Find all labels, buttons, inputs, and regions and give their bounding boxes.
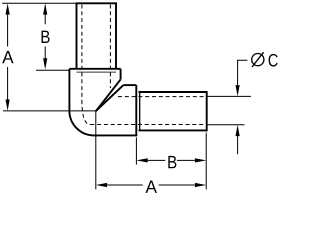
dimension B bottom line (148, 159, 195, 161)
dimension A left line (7, 15, 9, 100)
hidden bore line vertical right (109, 5, 111, 89)
leader arrow up (236, 125, 240, 136)
vertical tube top face edge (76, 2, 118, 4)
dimension A bottom arrow left (96, 183, 107, 187)
chamfer line upper (96, 79, 121, 111)
leader arrow down (236, 85, 240, 96)
extension line hub right (B bottom) (135, 137, 137, 164)
label B top (42, 31, 50, 43)
elbow body outer fillet arc (69, 111, 94, 136)
extension line bore top right (207, 95, 251, 97)
elbow body bottom edge (94, 134, 137, 136)
label C (269, 54, 278, 67)
leader stem below (237, 136, 239, 154)
dimension B bottom arrow left (136, 158, 147, 162)
dimension A bottom arrow right (195, 183, 206, 187)
horizontal tube end face (206, 91, 208, 131)
extension line vertical centerline (A bottom) (95, 111, 97, 189)
dimension B top arrow up (43, 3, 47, 14)
elbow hub right face edge (135, 85, 137, 135)
hidden bore line horizontal bottom (90, 124, 205, 126)
elbow hub top step edge (69, 68, 120, 70)
hidden bore fillet arc (82, 100, 90, 124)
extension line bore bottom right (207, 124, 245, 126)
leader line diameter C (238, 60, 248, 85)
chamfer line lower (96, 85, 124, 111)
dimension B top line (44, 15, 46, 59)
label B bottom (168, 156, 176, 168)
label A bottom (146, 181, 157, 193)
extension line top (2, 2, 77, 4)
elbow hub top edge (123, 84, 136, 86)
horizontal tube socket seam (139, 92, 141, 130)
dimension A left arrow up (6, 3, 10, 14)
vertical tube right edge (115, 3, 117, 69)
horizontal tube bottom edge (139, 129, 207, 131)
hidden bore line vertical left (81, 5, 83, 101)
diameter symbol (252, 54, 264, 66)
hidden bore line horizontal top (118, 96, 206, 98)
dimension B bottom arrow right (195, 158, 206, 162)
elbow body left edge (68, 69, 70, 111)
dimension B top arrow down (43, 58, 47, 69)
dimension A bottom line (107, 184, 195, 186)
vertical tube left edge (76, 3, 78, 69)
label A left (2, 51, 13, 63)
corner stub at chamfer (120, 69, 122, 80)
vertical tube socket seam (77, 71, 117, 73)
horizontal tube top edge (139, 91, 207, 93)
extension line tube end (right) (205, 133, 207, 190)
dimension A left arrow down (6, 100, 10, 111)
extension line horizontal centerline (A) (3, 110, 96, 112)
extension line hub step (B) (36, 69, 69, 71)
